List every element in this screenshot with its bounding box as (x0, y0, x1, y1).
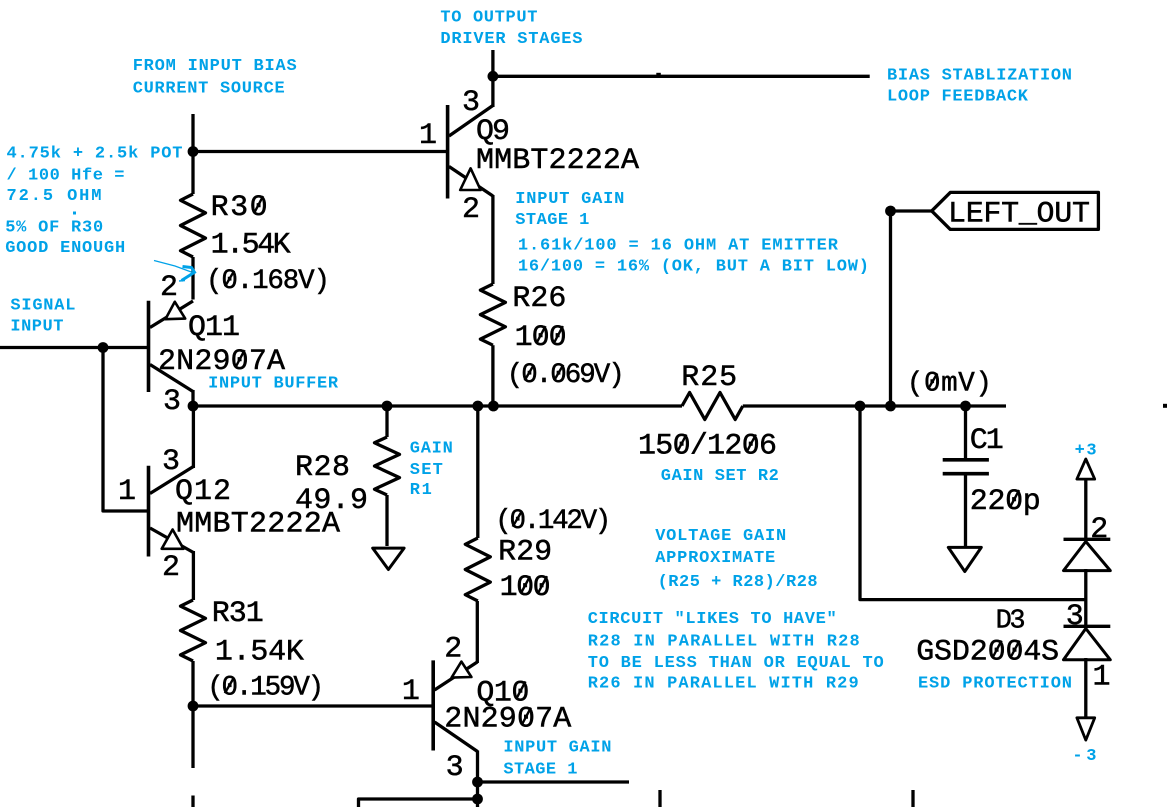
annotation: R1 (410, 481, 432, 500)
annotation: 5% OF R30 (5, 218, 103, 237)
ground symbol below C1 (948, 547, 981, 571)
annotation: ESD PROTECTION (918, 675, 1072, 694)
annotation: 72.5 OHM (7, 187, 102, 206)
svg-text:3: 3 (446, 751, 464, 785)
resistor R29 100 (465, 406, 611, 663)
svg-text:1.54K: 1.54K (211, 228, 291, 262)
wire R31 node down stub (191, 706, 194, 768)
node bus LEFT_OUT junction dot (885, 401, 896, 412)
node Q10 collector junction dot (472, 777, 483, 788)
annotation: TO OUTPUT (440, 9, 537, 28)
wire bias junction to Q9 base (193, 150, 447, 153)
svg-text:Q12: Q12 (175, 475, 231, 509)
svg-text:R29: R29 (498, 536, 552, 570)
svg-text:2: 2 (444, 633, 462, 667)
wire stub above R30 (191, 114, 194, 153)
wire bottom partial box (359, 799, 480, 807)
label GSD2004S (916, 636, 1059, 670)
wire signal down to Q12 base (103, 348, 149, 512)
svg-text:LOOP FEEDBACK: LOOP FEEDBACK (887, 88, 1029, 107)
wire R31 node to Q10 base (193, 704, 433, 707)
tick mark on feedback rail (656, 73, 661, 76)
resistor R31 1.54K (181, 597, 325, 707)
svg-text:R30: R30 (211, 191, 268, 225)
annotation: TO BE LESS THAN OR EQUAL TO (588, 654, 884, 673)
annotation: (R25 + R28)/R28 (658, 573, 818, 592)
svg-text:MMBT2222A: MMBT2222A (176, 508, 340, 542)
power symbol +3 arrow (1077, 459, 1095, 479)
annotation: LOOP FEEDBACK (887, 88, 1029, 107)
net label (0mV) (907, 369, 992, 400)
net label -3 (1072, 747, 1096, 766)
annotation: DRIVER STAGES (440, 30, 582, 49)
annotation: STAGE 1 (503, 761, 577, 780)
wire Q9 collector up stub (491, 50, 494, 78)
wire bottom dash 1 (658, 790, 661, 807)
node signal input junction dot (98, 342, 109, 353)
svg-text:R28: R28 (295, 451, 350, 485)
transistor Q11 2N2907A (PNP) (149, 271, 286, 419)
svg-text:INPUT: INPUT (10, 317, 63, 336)
node R31 bottom junction dot (188, 701, 199, 712)
svg-text:(0.159V): (0.159V) (207, 673, 324, 704)
cyan speck (73, 212, 76, 215)
annotation: R26 IN PARALLEL WITH R29 (588, 674, 859, 693)
svg-text:INPUT GAIN: INPUT GAIN (503, 739, 611, 758)
diode D3 upper half (pin 2) (1064, 513, 1111, 571)
annotation: 16/100 = 16% (OK, BUT A BIT LOW) (518, 258, 869, 277)
svg-text:CIRCUIT "LIKES TO HAVE": CIRCUIT "LIKES TO HAVE" (588, 610, 837, 629)
svg-text:1.61k/100 = 16 OHM AT EMITTER: 1.61k/100 = 16 OHM AT EMITTER (518, 237, 839, 256)
resistor R25 150/1206 (638, 361, 777, 463)
label D3 (996, 607, 1026, 637)
svg-text:5% OF R30: 5% OF R30 (5, 218, 103, 237)
svg-text:GAIN SET R2: GAIN SET R2 (661, 467, 779, 486)
node Q9 collector junction dot (488, 71, 499, 82)
svg-text:GSD2004S: GSD2004S (916, 636, 1059, 670)
annotation: R28 IN PARALLEL WITH R28 (588, 633, 860, 652)
svg-text:BIAS STABLIZATION: BIAS STABLIZATION (887, 67, 1072, 86)
wire LEFT_OUT vertical (889, 211, 892, 406)
svg-text:TO OUTPUT: TO OUTPUT (440, 9, 537, 28)
node LEFT_OUT junction dot (885, 206, 896, 217)
annotation: GAIN (410, 440, 453, 459)
svg-text:R1: R1 (410, 481, 432, 500)
svg-text:2: 2 (462, 193, 480, 227)
annotation: APPROXIMATE (655, 549, 775, 568)
svg-text:SET: SET (410, 461, 443, 480)
svg-text:GOOD ENOUGH: GOOD ENOUGH (5, 239, 125, 258)
wire diode1 to -3 (1084, 658, 1087, 719)
annotation: GOOD ENOUGH (5, 239, 125, 258)
node bias-in junction dot (188, 146, 199, 157)
svg-text:-3: -3 (1072, 747, 1096, 766)
svg-text:APPROXIMATE: APPROXIMATE (655, 549, 775, 568)
svg-text:100: 100 (500, 571, 551, 605)
svg-text:/ 100 Hfe =: / 100 Hfe = (7, 166, 125, 185)
svg-text:D3: D3 (996, 607, 1026, 637)
annotation: GAIN SET R2 (661, 467, 779, 486)
transistor Q9 MMBT2222A (NPN) (419, 77, 639, 227)
node R28 junction dot (382, 401, 393, 412)
ground symbol below R28 (373, 548, 404, 569)
svg-text:(0.142V): (0.142V) (495, 506, 611, 537)
annotation: BIAS STABLIZATION (887, 67, 1072, 86)
svg-text:3: 3 (162, 445, 180, 479)
wire bottom-left dash (191, 796, 194, 807)
annotation: INPUT BUFFER (208, 375, 339, 394)
node R26 bottom junction dot (488, 401, 499, 412)
svg-text:R26 IN PARALLEL WITH R29: R26 IN PARALLEL WITH R29 (588, 674, 859, 693)
svg-text:R25: R25 (681, 361, 737, 395)
svg-text:+3: +3 (1075, 442, 1097, 461)
svg-text:2: 2 (1090, 513, 1108, 547)
svg-text:1: 1 (402, 675, 420, 709)
wire main bus left segment (193, 404, 682, 407)
svg-text:(0.069V): (0.069V) (507, 360, 625, 391)
annotation: VOLTAGE GAIN (655, 527, 786, 546)
svg-text:(0mV): (0mV) (907, 369, 992, 400)
svg-text:1: 1 (118, 475, 136, 509)
annotation: INPUT GAIN (503, 739, 611, 758)
svg-text:3: 3 (163, 385, 181, 419)
svg-text:TO BE LESS THAN OR EQUAL TO: TO BE LESS THAN OR EQUAL TO (588, 654, 884, 673)
svg-text:R28 IN PARALLEL WITH R28: R28 IN PARALLEL WITH R28 (588, 633, 860, 652)
wire +3 to diode 2 (1084, 478, 1087, 540)
svg-text:220p: 220p (970, 485, 1041, 519)
wire feedback top rail (493, 75, 870, 78)
annotation: / 100 Hfe = (7, 166, 125, 185)
node R29 top junction dot (472, 401, 483, 412)
svg-text:SIGNAL: SIGNAL (10, 297, 75, 316)
svg-text:100: 100 (515, 321, 567, 355)
svg-text:1: 1 (1093, 660, 1111, 694)
svg-text:150/1206: 150/1206 (638, 429, 777, 463)
annotation: STAGE 1 (515, 211, 589, 230)
wire bus down to D3 node (860, 406, 1086, 600)
svg-text:1.54K: 1.54K (215, 636, 304, 670)
svg-text:72.5 OHM: 72.5 OHM (7, 187, 102, 206)
annotation: INPUT GAIN (515, 190, 624, 209)
node bus-D3 junction dot (855, 401, 866, 412)
svg-text:R26: R26 (512, 282, 566, 316)
annotation: 4.75k + 2.5k POT (7, 144, 183, 163)
capacitor C1 220p (943, 406, 1041, 548)
svg-text:2N2907A: 2N2907A (444, 703, 571, 737)
power symbol -3 arrow (1077, 718, 1095, 740)
resistor R28 49.9 (295, 406, 400, 546)
hand-drawn cyan arrow pointing at R30 bottom (154, 261, 195, 282)
node bottom junction dot (472, 794, 483, 805)
svg-text:C1: C1 (970, 424, 1004, 458)
svg-text:VOLTAGE GAIN: VOLTAGE GAIN (655, 527, 786, 546)
annotation: 1.61k/100 = 16 OHM AT EMITTER (518, 237, 839, 256)
svg-text:1: 1 (419, 119, 437, 153)
wire Q10 collector output right (478, 780, 630, 783)
net flag LEFT_OUT (932, 192, 1099, 231)
svg-text:4.75k + 2.5k POT: 4.75k + 2.5k POT (7, 144, 183, 163)
transistor Q12 MMBT2222A (NPN) (118, 406, 340, 600)
annotation: CURRENT SOURCE (133, 80, 285, 99)
svg-text:INPUT GAIN: INPUT GAIN (515, 190, 624, 209)
annotation: INPUT (10, 317, 63, 336)
svg-text:GAIN: GAIN (410, 440, 453, 459)
svg-text:Q11: Q11 (188, 311, 240, 345)
svg-text:FROM INPUT BIAS: FROM INPUT BIAS (133, 57, 297, 76)
svg-text:MMBT2222A: MMBT2222A (476, 144, 639, 178)
wire LEFT_OUT to flag (891, 209, 934, 212)
svg-text:3: 3 (1066, 600, 1084, 634)
svg-text:LEFT_OUT: LEFT_OUT (948, 197, 1090, 231)
wire R30 top lead (191, 152, 194, 195)
svg-text:2: 2 (162, 551, 180, 585)
svg-text:CURRENT SOURCE: CURRENT SOURCE (133, 80, 285, 99)
svg-text:R31: R31 (212, 597, 264, 631)
wire bottom dash 2 (911, 790, 914, 807)
node C1 junction dot (960, 401, 971, 412)
wire signal input to Q11 base (0, 346, 149, 349)
annotation: SET (410, 461, 443, 480)
resistor R30 1.54K (181, 191, 331, 300)
annotation: CIRCUIT "LIKES TO HAVE" (588, 610, 837, 629)
annotation: SIGNAL (10, 297, 75, 316)
transistor Q10 2N2907A (PNP) (402, 633, 571, 807)
svg-text:STAGE 1: STAGE 1 (515, 211, 589, 230)
svg-text:(R25 + R28)/R28: (R25 + R28)/R28 (658, 573, 818, 592)
svg-text:INPUT BUFFER: INPUT BUFFER (208, 375, 339, 394)
wire diode2 to node (1084, 569, 1087, 627)
svg-text:(0.168V): (0.168V) (206, 266, 330, 297)
wire main bus right segment (743, 404, 1006, 407)
annotation: FROM INPUT BIAS (133, 57, 297, 76)
wire stub right edge (1163, 404, 1167, 408)
diode D3 lower half (pins 3,1) (1064, 600, 1111, 694)
svg-text:DRIVER STAGES: DRIVER STAGES (440, 30, 582, 49)
svg-text:2: 2 (160, 271, 178, 305)
net label +3 (1075, 442, 1097, 461)
resistor R26 100 (480, 195, 624, 406)
node Q11 collector junction dot (188, 401, 199, 412)
svg-text:ESD PROTECTION: ESD PROTECTION (918, 675, 1072, 694)
svg-text:STAGE 1: STAGE 1 (503, 761, 577, 780)
svg-text:16/100 = 16% (OK, BUT A BIT LO: 16/100 = 16% (OK, BUT A BIT LOW) (518, 258, 869, 277)
